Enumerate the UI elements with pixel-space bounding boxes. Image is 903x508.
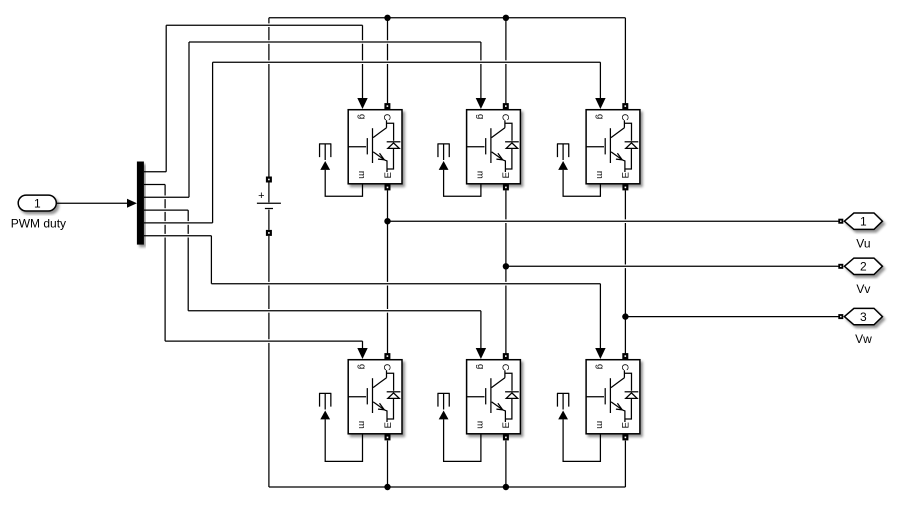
svg-text:Vv: Vv bbox=[856, 282, 870, 296]
IGBT U2 upper-V bbox=[467, 103, 521, 190]
wire top DC+ bus bbox=[269, 17, 626, 19]
svg-text:1: 1 bbox=[34, 197, 41, 211]
node junction Vu tap bbox=[384, 218, 390, 224]
IGBT U1 upper-U bbox=[348, 103, 402, 190]
wire E drop lower col1 bbox=[387, 441, 389, 487]
wire demux out1 stub bbox=[144, 171, 166, 173]
wire DC source top lead bbox=[268, 18, 270, 177]
terminator lower col2 bbox=[438, 393, 450, 409]
outport 1 Vu bbox=[838, 213, 882, 251]
wire gate rail lower col2 bbox=[188, 310, 481, 312]
wire m loop upper col2 bbox=[439, 161, 481, 196]
svg-text:PWM duty: PWM duty bbox=[11, 216, 66, 230]
wire demux down riser 1 bbox=[164, 185, 166, 342]
svg-text:2: 2 bbox=[860, 260, 867, 274]
wire Vw line bbox=[625, 316, 838, 318]
IGBT U4 lower-U bbox=[348, 353, 402, 440]
wire C feeder col2 bbox=[505, 18, 507, 104]
wire gate rail upper col1 bbox=[166, 24, 362, 26]
wire PWM duty to demux bbox=[56, 199, 137, 208]
wire demux out6 stub bbox=[144, 235, 212, 237]
wire demux out3 stub bbox=[144, 196, 189, 198]
wire gate drop lower col3 bbox=[595, 284, 605, 359]
wire m loop lower col3 bbox=[558, 411, 600, 462]
inport 1 PWM duty bbox=[11, 195, 66, 230]
wire DC source bottom lead bbox=[268, 236, 270, 487]
wire m loop upper col1 bbox=[320, 161, 362, 196]
svg-text:3: 3 bbox=[860, 310, 867, 324]
node junction top bus / C2 bbox=[503, 15, 509, 21]
wire gate drop upper col1 bbox=[357, 25, 367, 109]
IGBT U5 lower-V bbox=[467, 353, 521, 440]
wire demux up riser 3 bbox=[212, 62, 214, 223]
wire phase U midpoint bbox=[387, 190, 389, 353]
wire gate drop upper col3 bbox=[595, 62, 605, 109]
wire demux out2 stub bbox=[144, 184, 165, 186]
wire demux up riser 2 bbox=[188, 42, 190, 197]
wire m loop upper col3 bbox=[558, 161, 600, 196]
svg-text:Vw: Vw bbox=[855, 332, 872, 346]
wire E drop lower col2 bbox=[505, 441, 507, 487]
wire gate rail lower col3 bbox=[211, 283, 600, 285]
wire phase W midpoint bbox=[624, 190, 626, 353]
svg-text:+: + bbox=[258, 190, 264, 202]
IGBT U6 lower-W bbox=[586, 353, 640, 440]
wire Vv line bbox=[506, 265, 839, 267]
node junction Vw tap bbox=[622, 313, 628, 319]
terminator upper col3 bbox=[557, 144, 569, 160]
outport 2 Vv bbox=[838, 258, 882, 296]
node junction bottom bus / E4 bbox=[384, 484, 390, 490]
svg-text:Vu: Vu bbox=[856, 237, 870, 251]
wire demux down riser 2 bbox=[187, 210, 189, 311]
node junction Vv tap bbox=[503, 263, 509, 269]
terminator upper col2 bbox=[438, 144, 450, 160]
demux (PWM duty splitter) bbox=[137, 162, 144, 245]
terminator upper col1 bbox=[319, 144, 331, 160]
IGBT U3 upper-W bbox=[586, 103, 640, 190]
wire demux out4 stub bbox=[144, 209, 188, 211]
wire demux out5 stub bbox=[144, 222, 213, 224]
wire Vu line bbox=[388, 220, 839, 222]
wire gate drop lower col1 bbox=[357, 341, 367, 359]
wire bottom DC- bus bbox=[269, 486, 626, 488]
DC voltage source V1 bbox=[257, 177, 281, 236]
wire gate drop upper col2 bbox=[476, 42, 486, 109]
wire gate rail upper col3 bbox=[213, 61, 601, 63]
node junction top bus / C1 bbox=[384, 15, 390, 21]
outport 3 Vw bbox=[838, 308, 882, 346]
wire C feeder col3 bbox=[624, 18, 626, 104]
wire demux down riser 3 bbox=[210, 236, 212, 284]
wire E drop lower col3 bbox=[624, 441, 626, 487]
node junction bottom bus / E5 bbox=[503, 484, 509, 490]
wire C feeder col1 bbox=[387, 18, 389, 104]
terminator lower col1 bbox=[319, 393, 331, 409]
wire gate drop lower col2 bbox=[476, 311, 486, 359]
terminator lower col3 bbox=[557, 393, 569, 409]
wire m loop lower col2 bbox=[439, 411, 481, 462]
svg-text:1: 1 bbox=[860, 215, 867, 229]
wire demux up riser 1 bbox=[165, 25, 167, 172]
wire phase V midpoint bbox=[505, 190, 507, 353]
wire gate rail upper col2 bbox=[189, 41, 481, 43]
wire m loop lower col1 bbox=[320, 411, 362, 462]
wire gate rail lower col1 bbox=[165, 340, 362, 342]
